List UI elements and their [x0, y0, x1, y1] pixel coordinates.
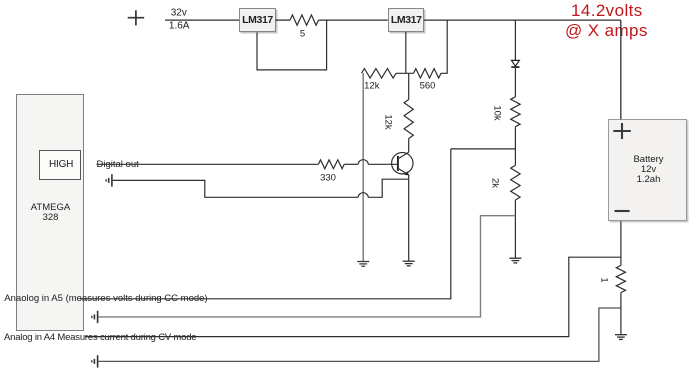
op-amp U1 LM317 box — [239, 8, 276, 33]
label 330 — [320, 172, 336, 183]
wire hop 2 over gray leg — [358, 193, 368, 198]
label battery text — [633, 155, 663, 185]
wire rail down to battery plus — [620, 20, 622, 119]
wire N1 segment a — [113, 180, 359, 197]
battery BT1 box — [608, 119, 687, 221]
label U2 LM317 — [391, 14, 422, 26]
wire R5 to hop — [344, 163, 358, 165]
wire R3 to rail — [441, 20, 447, 73]
ground G4 — [615, 335, 627, 340]
wire ADJ junction — [396, 72, 414, 74]
resistor R3 560 — [414, 69, 442, 78]
wire mid junction to A5 leg — [451, 148, 516, 150]
wire U2 ADJ pin down — [405, 32, 407, 73]
ground G3 — [509, 258, 521, 263]
transistor Q1 circle — [392, 153, 413, 174]
ATMEGA 328 microcontroller box — [16, 94, 84, 331]
wire rail down to diode — [514, 20, 516, 60]
transistor Q1 base bar — [397, 156, 399, 171]
label 14.2volts at X amps (red annotation) — [571, 1, 643, 21]
transistor Q1 emitter with arrow — [398, 168, 409, 175]
battery minus terminal — [615, 210, 630, 212]
wire R6 to R7 — [514, 127, 516, 166]
supply positive terminal + — [128, 10, 145, 25]
resistor R4 12k vertical — [404, 100, 413, 139]
label 2k rotated — [490, 178, 501, 188]
label Digital out — [97, 159, 139, 170]
wire hop to base — [368, 163, 398, 165]
resistor R5 330 — [318, 160, 344, 169]
wire hop over gray leg — [358, 160, 368, 165]
wire battery minus down — [620, 221, 622, 265]
wire emitter down to ground — [408, 175, 410, 261]
ground G1 — [357, 262, 369, 267]
wire analog A4 — [85, 257, 621, 336]
transistor Q1 collector — [398, 152, 409, 159]
wire R8 to ground — [620, 293, 622, 335]
reference symbol N2 — [92, 311, 98, 323]
wire U2 output rail to battery — [424, 19, 621, 21]
wire analog A5 — [80, 149, 451, 299]
label 1 rotated — [599, 277, 610, 282]
label 5 — [300, 28, 305, 39]
diode D1 — [511, 60, 519, 67]
HIGH pin box — [39, 150, 82, 180]
wire N1 segment b — [368, 179, 409, 197]
resistor R1 5 ohm — [290, 15, 319, 25]
label 560 — [420, 80, 436, 91]
resistor R8 1 ohm sense — [616, 265, 625, 292]
label HIGH — [49, 159, 73, 170]
label U1 LM317 — [242, 14, 273, 26]
battery plus terminal — [613, 123, 631, 139]
label ATMEGA 328 — [31, 203, 70, 223]
wire digital out to R5 — [97, 163, 319, 165]
wire bottom return — [98, 308, 621, 361]
wire gray return from 2k bottom — [98, 216, 515, 317]
label Analog in A4 — [4, 332, 196, 343]
resistor R7 2k — [511, 165, 520, 200]
reference symbol N1 — [106, 174, 112, 186]
label 12k horizontal — [364, 80, 379, 91]
wire R4 to collector — [408, 139, 410, 153]
resistor R2 12k horizontal — [362, 69, 397, 79]
label 32v — [171, 8, 187, 19]
wire input from + supply to U1 — [165, 19, 239, 21]
wire U1 output to resistor R1 — [276, 19, 291, 21]
wire ADJ junction to R4 — [408, 73, 410, 99]
label Analog in A5 — [4, 293, 207, 304]
wire diode to R6 — [514, 67, 516, 97]
wire R7 to ground — [514, 200, 516, 258]
wire 12k left leg to ground — [362, 73, 364, 261]
label 12k rotated — [383, 114, 394, 129]
ground G2 — [403, 261, 415, 266]
label 1.6A — [169, 20, 190, 31]
resistor R6 10k — [511, 97, 520, 127]
op-amp U2 LM317 box — [388, 8, 425, 33]
wire R1 to U2 input — [319, 19, 388, 21]
reference symbol N3 — [92, 355, 98, 367]
label 10k rotated — [492, 105, 503, 120]
wire U1 ADJ feedback loop — [257, 20, 327, 70]
